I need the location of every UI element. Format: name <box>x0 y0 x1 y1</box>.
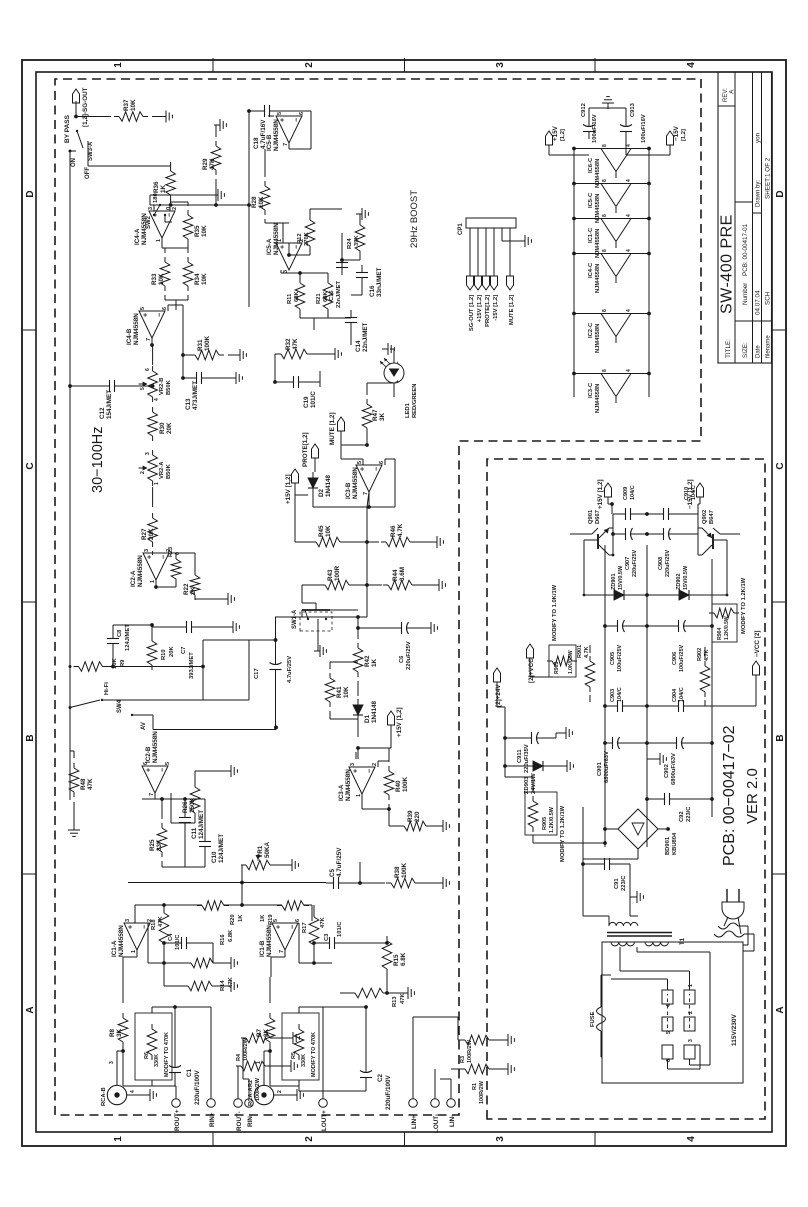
svg-text:4.7K: 4.7K <box>584 646 590 658</box>
svg-text:3: 3 <box>495 62 506 68</box>
svg-text:C13: C13 <box>185 398 192 410</box>
svg-text:8: 8 <box>602 309 608 312</box>
svg-text:47K: 47K <box>87 778 94 790</box>
svg-text:10K: 10K <box>343 686 350 698</box>
svg-text:47K: 47K <box>158 916 164 927</box>
svg-text:C8: C8 <box>117 629 123 637</box>
svg-text:+: + <box>353 769 360 773</box>
svg-text:MODIFY TO 1.2K/1W: MODIFY TO 1.2K/1W <box>560 805 566 862</box>
svg-text:MUTE [1,2]: MUTE [1,2] <box>509 295 515 325</box>
svg-text:4.7uF/25V: 4.7uF/25V <box>336 847 343 877</box>
svg-text:−: − <box>374 467 381 471</box>
svg-text:101/C: 101/C <box>175 934 181 950</box>
svg-text:Drawn by:: Drawn by: <box>755 180 761 207</box>
svg-text:C91: C91 <box>614 878 620 889</box>
svg-text:7: 7 <box>149 793 155 796</box>
svg-text:D: D <box>775 190 786 197</box>
svg-text:PCB: 00−00417−02: PCB: 00−00417−02 <box>721 725 738 866</box>
svg-text:B: B <box>775 734 786 741</box>
svg-text:7: 7 <box>146 338 152 341</box>
svg-text:3: 3 <box>350 763 356 766</box>
svg-text:IC5-A: IC5-A <box>266 238 273 255</box>
svg-text:6.8K: 6.8K <box>400 952 407 966</box>
svg-text:6800uF/63V: 6800uF/63V <box>671 753 677 785</box>
svg-text:20K: 20K <box>166 422 173 434</box>
svg-text:R905: R905 <box>542 817 548 830</box>
svg-text:R13: R13 <box>392 996 398 1007</box>
svg-text:IC3-A: IC3-A <box>338 784 345 801</box>
svg-text:C18: C18 <box>253 137 260 149</box>
svg-text:3: 3 <box>144 549 150 552</box>
svg-text:D: D <box>25 190 36 197</box>
svg-text:LIN-: LIN- <box>449 1115 456 1127</box>
svg-text:R30: R30 <box>159 422 166 434</box>
svg-text:IC4-C: IC4-C <box>588 262 594 278</box>
svg-text:NJM4558N: NJM4558N <box>595 264 601 293</box>
svg-text:68K: 68K <box>294 291 300 302</box>
svg-text:1: 1 <box>256 1061 262 1064</box>
svg-text:TITLE:: TITLE: <box>725 339 732 358</box>
svg-text:Q901: Q901 <box>588 509 594 524</box>
svg-text:NJM4558N: NJM4558N <box>118 925 125 957</box>
svg-text:2: 2 <box>172 207 178 210</box>
svg-text:IC3-C: IC3-C <box>588 382 594 398</box>
svg-text:47K: 47K <box>209 158 216 170</box>
svg-text:6: 6 <box>379 461 385 464</box>
svg-text:R901: R901 <box>577 645 583 658</box>
svg-text:C16: C16 <box>369 285 376 297</box>
svg-text:MUTE [1,2]: MUTE [1,2] <box>329 412 336 445</box>
svg-text:ON: ON <box>71 158 77 167</box>
svg-text:R903: R903 <box>554 661 560 674</box>
svg-text:8: 8 <box>602 179 608 182</box>
svg-text:R44: R44 <box>392 569 399 581</box>
svg-text:R37: R37 <box>123 99 130 111</box>
svg-text:IC5-C: IC5-C <box>588 192 594 208</box>
svg-text:−: − <box>160 768 167 772</box>
svg-text:R6: R6 <box>144 1052 150 1059</box>
svg-text:−15V [1,2]: −15V [1,2] <box>687 479 694 509</box>
svg-text:R7: R7 <box>256 1028 263 1037</box>
svg-text:+15V [1,2]: +15V [1,2] <box>285 474 292 504</box>
svg-text:C901: C901 <box>597 761 603 776</box>
svg-text:SW1-A: SW1-A <box>292 609 298 629</box>
svg-text:C14: C14 <box>355 340 362 352</box>
svg-text:4: 4 <box>154 398 160 401</box>
svg-text:SG-OUT [1,2]: SG-OUT [1,2] <box>469 295 475 331</box>
svg-text:A: A <box>729 89 736 94</box>
svg-text:−: − <box>161 555 168 559</box>
svg-text:1N4148: 1N4148 <box>325 474 332 497</box>
svg-text:NJM4558N: NJM4558N <box>595 384 601 413</box>
svg-text:1: 1 <box>154 482 160 485</box>
svg-text:R18: R18 <box>151 919 157 930</box>
svg-text:220uF/25V: 220uF/25V <box>632 549 638 577</box>
svg-text:6.8K: 6.8K <box>228 929 234 942</box>
svg-text:C4: C4 <box>168 933 174 941</box>
svg-text:IC2-B: IC2-B <box>145 746 152 763</box>
svg-text:100K: 100K <box>402 776 409 792</box>
svg-text:3K: 3K <box>116 1028 123 1037</box>
svg-text:R902: R902 <box>697 648 703 661</box>
svg-text:2: 2 <box>688 1011 694 1014</box>
svg-text:3: 3 <box>688 1039 694 1042</box>
svg-text:R36: R36 <box>153 181 160 193</box>
svg-text:100uF/25V: 100uF/25V <box>679 644 685 672</box>
svg-text:IC4-A: IC4-A <box>134 228 141 245</box>
svg-text:5: 5 <box>140 387 146 390</box>
svg-text:8: 8 <box>602 144 608 147</box>
svg-text:B: B <box>25 734 36 741</box>
svg-text:R9: R9 <box>120 659 126 667</box>
svg-text:C3: C3 <box>324 933 330 941</box>
svg-text:223/C: 223/C <box>686 806 692 822</box>
svg-text:NJM4558N: NJM4558N <box>352 467 359 499</box>
svg-text:PROTE[1,2]: PROTE[1,2] <box>485 295 491 327</box>
svg-text:Date: Date <box>755 345 761 358</box>
svg-text:104/C: 104/C <box>630 485 636 500</box>
svg-text:IC4-B: IC4-B <box>126 328 133 345</box>
svg-text:3: 3 <box>125 919 131 922</box>
svg-text:R11: R11 <box>287 293 293 304</box>
svg-text:ZD901: ZD901 <box>611 573 617 590</box>
svg-text:R25: R25 <box>149 839 156 851</box>
svg-text:NJM4558N: NJM4558N <box>137 555 144 587</box>
svg-text:−: − <box>167 213 174 217</box>
svg-text:2: 2 <box>372 763 378 766</box>
svg-text:8: 8 <box>602 369 608 372</box>
svg-text:220uF/25V: 220uF/25V <box>406 641 412 670</box>
svg-text:4: 4 <box>626 249 632 252</box>
svg-text:124J/MET: 124J/MET <box>198 810 205 839</box>
svg-text:270K: 270K <box>304 231 310 246</box>
svg-text:R28: R28 <box>251 196 258 208</box>
svg-text:6: 6 <box>162 307 168 310</box>
svg-text:C905: C905 <box>610 652 616 665</box>
svg-text:C909: C909 <box>623 487 629 500</box>
svg-text:ZD902: ZD902 <box>676 573 682 590</box>
svg-text:10K: 10K <box>325 525 332 537</box>
svg-text:5: 5 <box>277 112 283 115</box>
svg-text:LED1: LED1 <box>405 402 411 418</box>
svg-text:RCA-B: RCA-B <box>101 1087 107 1106</box>
svg-text:1: 1 <box>356 794 362 797</box>
svg-text:C911: C911 <box>517 749 523 763</box>
svg-text:R24: R24 <box>347 238 353 249</box>
svg-text:C11: C11 <box>191 827 198 839</box>
svg-text:OFF: OFF <box>85 167 91 179</box>
svg-text:4.7uF/25V: 4.7uF/25V <box>287 656 293 683</box>
svg-text:5: 5 <box>666 1031 672 1034</box>
svg-text:24V/1W: 24V/1W <box>531 773 537 794</box>
svg-text:BY PASS: BY PASS <box>64 114 71 143</box>
svg-text:104/C: 104/C <box>617 687 623 702</box>
svg-text:50KA: 50KA <box>264 841 271 858</box>
svg-text:5: 5 <box>273 919 279 922</box>
svg-text:−15V: −15V <box>673 125 680 141</box>
svg-text:47K: 47K <box>400 993 406 1004</box>
svg-text:−: − <box>294 245 301 249</box>
svg-text:15V/0.5W: 15V/0.5W <box>683 565 689 590</box>
svg-text:3K: 3K <box>379 412 386 421</box>
svg-text:1: 1 <box>113 1136 124 1142</box>
svg-text:R22: R22 <box>183 583 190 595</box>
svg-text:R40: R40 <box>395 780 402 792</box>
svg-text:154J/MET: 154J/MET <box>106 390 113 419</box>
svg-text:115V/230V: 115V/230V <box>731 1014 738 1046</box>
svg-text:D667: D667 <box>595 510 601 524</box>
svg-text:R42: R42 <box>364 655 371 667</box>
svg-text:NJM4558N: NJM4558N <box>273 223 280 255</box>
svg-text:220uF/100V: 220uF/100V <box>194 1070 201 1105</box>
svg-text:R3: R3 <box>460 1056 466 1063</box>
svg-text:5: 5 <box>165 762 171 765</box>
svg-text:C: C <box>775 462 786 469</box>
svg-text:R20: R20 <box>230 914 236 925</box>
svg-text:RIN+: RIN+ <box>209 1112 216 1127</box>
svg-text:VR2-A: VR2-A <box>159 461 165 479</box>
svg-text:R5: R5 <box>291 1052 297 1059</box>
svg-text:LIN+: LIN+ <box>411 1115 418 1129</box>
svg-text:10K: 10K <box>158 273 165 285</box>
svg-text:R16: R16 <box>220 934 226 945</box>
svg-text:NJM4558N: NJM4558N <box>595 324 601 353</box>
svg-text:220uF/25V: 220uF/25V <box>665 549 671 577</box>
svg-text:[2]+VCC: [2]+VCC <box>528 658 535 683</box>
svg-text:C908: C908 <box>658 557 664 570</box>
svg-text:LOUT-: LOUT- <box>433 1114 440 1133</box>
svg-text:MODIFY TO 1.2K/1W: MODIFY TO 1.2K/1W <box>741 577 747 634</box>
svg-text:+15V [1,2]: +15V [1,2] <box>396 707 403 737</box>
svg-text:R35: R35 <box>194 225 201 237</box>
svg-text:NJM4558N: NJM4558N <box>133 313 140 345</box>
svg-text:+15V [1,2]: +15V [1,2] <box>477 295 483 322</box>
svg-text:R4: R4 <box>236 1053 242 1061</box>
svg-text:1: 1 <box>156 239 162 242</box>
svg-text:[1,2]: [1,2] <box>560 129 566 141</box>
svg-text:C912: C912 <box>581 103 587 117</box>
svg-text:B647: B647 <box>709 510 715 524</box>
svg-text:R32: R32 <box>285 338 292 350</box>
svg-text:100R/2W: 100R/2W <box>243 1037 249 1061</box>
svg-text:100uF/16V: 100uF/16V <box>592 114 598 143</box>
svg-text:R21: R21 <box>316 293 322 304</box>
svg-text:RIN-: RIN- <box>247 1114 254 1127</box>
svg-text:6: 6 <box>299 112 305 115</box>
svg-text:4: 4 <box>686 1136 697 1142</box>
svg-text:PCB: 00-00417-01: PCB: 00-00417-01 <box>742 223 749 276</box>
svg-text:15V/0.5W: 15V/0.5W <box>618 565 624 590</box>
svg-text:1: 1 <box>113 62 124 68</box>
svg-text:MODIFY TO 1.0K/1W: MODIFY TO 1.0K/1W <box>552 584 558 641</box>
svg-text:D2: D2 <box>318 488 325 497</box>
svg-text:C6: C6 <box>399 655 405 663</box>
svg-text:2: 2 <box>304 1136 315 1142</box>
svg-text:−: − <box>142 925 149 929</box>
svg-text:+: + <box>395 380 401 383</box>
svg-text:3K: 3K <box>263 1028 270 1037</box>
svg-text:1K: 1K <box>160 184 167 193</box>
svg-text:C7: C7 <box>181 647 187 654</box>
svg-text:RCA-A: RCA-A <box>248 1087 254 1106</box>
svg-text:ROUT+: ROUT+ <box>174 1109 181 1131</box>
svg-text:ZD903: ZD903 <box>524 776 530 794</box>
svg-text:101/C: 101/C <box>337 921 343 937</box>
svg-text:C19: C19 <box>303 396 310 408</box>
svg-text:1.2K/0.5W: 1.2K/0.5W <box>724 616 730 640</box>
svg-text:33nJ/MET: 33nJ/MET <box>376 267 383 297</box>
svg-text:SW-400 PRE: SW-400 PRE <box>719 214 736 314</box>
svg-text:20K: 20K <box>148 528 155 540</box>
svg-text:4: 4 <box>626 144 632 147</box>
svg-text:SHEET:1 OF 2: SHEET:1 OF 2 <box>764 157 771 199</box>
svg-text:R8: R8 <box>109 1028 116 1037</box>
svg-text:330K: 330K <box>154 1054 160 1067</box>
svg-text:VER 2.0: VER 2.0 <box>744 768 761 824</box>
svg-text:1: 1 <box>688 984 694 987</box>
svg-text:R43: R43 <box>327 569 334 581</box>
svg-text:KBU804: KBU804 <box>672 832 678 855</box>
svg-text:R45: R45 <box>318 525 325 537</box>
svg-text:BD901: BD901 <box>665 836 671 855</box>
svg-text:VR2-B: VR2-B <box>159 378 165 395</box>
svg-text:10K: 10K <box>258 196 265 208</box>
svg-text:3: 3 <box>148 207 154 210</box>
svg-text:100uF/25V: 100uF/25V <box>617 644 623 672</box>
svg-text:+: + <box>128 925 135 929</box>
svg-text:−: − <box>294 118 301 122</box>
svg-text:SCH: SCH <box>764 291 771 305</box>
svg-text:C906: C906 <box>672 652 678 665</box>
svg-text:330K: 330K <box>301 1054 307 1067</box>
svg-text:T1: T1 <box>680 937 686 945</box>
svg-text:2: 2 <box>304 62 315 68</box>
svg-text:22nJ/MET: 22nJ/MET <box>362 322 369 352</box>
svg-text:C92: C92 <box>679 811 685 822</box>
svg-text:3.6M: 3.6M <box>399 567 406 581</box>
svg-text:SW3-A: SW3-A <box>88 141 94 161</box>
svg-text:Number: Number <box>742 283 749 305</box>
svg-text:4: 4 <box>626 214 632 217</box>
svg-text:NJM4558N: NJM4558N <box>141 213 148 245</box>
svg-text:5: 5 <box>140 307 146 310</box>
svg-text:1K: 1K <box>260 914 266 922</box>
svg-text:R33: R33 <box>151 273 158 285</box>
svg-text:R26: R26 <box>182 801 189 813</box>
svg-text:yon: yon <box>754 132 761 143</box>
svg-text:ROUT-: ROUT- <box>236 1111 243 1131</box>
svg-text:100R: 100R <box>334 565 341 581</box>
svg-text:7: 7 <box>363 492 369 495</box>
svg-text:1K: 1K <box>238 914 244 922</box>
svg-text:R1: R1 <box>472 1083 478 1090</box>
svg-text:[1,2]: [1,2] <box>681 129 687 141</box>
svg-text:100K: 100K <box>204 335 211 351</box>
svg-text:1K: 1K <box>371 658 378 667</box>
svg-text:A: A <box>25 1006 36 1013</box>
svg-text:4: 4 <box>686 62 697 68</box>
svg-text:1: 1 <box>150 580 156 583</box>
svg-text:R47: R47 <box>372 409 379 421</box>
svg-text:−: − <box>395 361 401 364</box>
svg-text:[2]+24V: [2]+24V <box>495 684 502 707</box>
svg-text:C904: C904 <box>672 688 678 702</box>
svg-text:A: A <box>775 1006 786 1013</box>
svg-text:124J/MET: 124J/MET <box>218 834 225 863</box>
svg-text:R17: R17 <box>302 922 308 933</box>
svg-text:30−100Hz: 30−100Hz <box>90 426 106 493</box>
svg-text:C15: C15 <box>329 290 335 301</box>
svg-text:4: 4 <box>130 1090 136 1093</box>
svg-text:B50K: B50K <box>166 379 172 395</box>
svg-text:R38: R38 <box>394 866 401 878</box>
svg-text:7: 7 <box>279 950 285 953</box>
svg-text:R29: R29 <box>202 158 209 170</box>
svg-text:-15V [1,2]: -15V [1,2] <box>493 295 499 321</box>
svg-text:NJM4558N: NJM4558N <box>152 731 159 763</box>
svg-text:R39: R39 <box>407 810 414 822</box>
svg-text:R12: R12 <box>297 233 303 244</box>
svg-text:6: 6 <box>145 368 151 371</box>
svg-text:−: − <box>290 925 297 929</box>
svg-text:100R/2W: 100R/2W <box>479 1080 485 1104</box>
svg-text:6: 6 <box>143 762 149 765</box>
svg-text:3: 3 <box>495 1136 506 1142</box>
svg-text:104/C: 104/C <box>679 687 685 702</box>
svg-text:+15V [1,2]: +15V [1,2] <box>597 479 604 509</box>
svg-text:4: 4 <box>666 1004 672 1007</box>
svg-text:223/C: 223/C <box>621 875 627 891</box>
svg-text:RED/GREEN: RED/GREEN <box>412 384 418 418</box>
svg-text:IC1-B: IC1-B <box>259 940 266 957</box>
svg-text:FUSE: FUSE <box>590 1011 596 1027</box>
svg-text:2: 2 <box>277 1090 283 1093</box>
svg-text:C2: C2 <box>377 1073 384 1082</box>
svg-text:IC1-A: IC1-A <box>111 940 118 957</box>
svg-text:[1,2]-SG-OUT: [1,2]-SG-OUT <box>82 87 89 127</box>
svg-text:filename: filename <box>765 335 771 358</box>
svg-text:5: 5 <box>357 461 363 464</box>
svg-text:1N4148: 1N4148 <box>371 700 378 723</box>
svg-text:MODIFY TO 470K: MODIFY TO 470K <box>164 1032 170 1077</box>
svg-text:2: 2 <box>140 471 146 474</box>
svg-text:4: 4 <box>626 369 632 372</box>
svg-text:C10: C10 <box>211 851 218 863</box>
svg-text:39K: 39K <box>354 235 360 246</box>
svg-text:B50K: B50K <box>166 463 172 479</box>
svg-text:PROTE[1,2]: PROTE[1,2] <box>302 432 309 467</box>
svg-text:R904: R904 <box>717 627 723 640</box>
svg-text:NJM4558N: NJM4558N <box>345 769 352 801</box>
svg-text:220uF/35V: 220uF/35V <box>524 744 530 773</box>
svg-text:MODIFY TO 470K: MODIFY TO 470K <box>311 1032 317 1077</box>
svg-text:473J/MET: 473J/MET <box>192 381 199 410</box>
svg-text:100uF/16V: 100uF/16V <box>641 114 647 143</box>
svg-text:C: C <box>25 462 36 469</box>
svg-text:1: 1 <box>277 239 283 242</box>
svg-text:NJM4558N: NJM4558N <box>273 119 280 151</box>
svg-text:3: 3 <box>109 1061 115 1064</box>
svg-text:22nJ/MET: 22nJ/MET <box>336 280 342 308</box>
svg-text:4.7K: 4.7K <box>397 523 404 537</box>
svg-text:IC1-C: IC1-C <box>588 227 594 243</box>
svg-text:Q902: Q902 <box>702 510 708 524</box>
svg-text:+: + <box>280 118 287 122</box>
svg-text:1.2K/0.5W: 1.2K/0.5W <box>549 806 555 833</box>
svg-text:+: + <box>360 467 367 471</box>
svg-text:−: − <box>367 769 374 773</box>
svg-text:C17: C17 <box>254 668 260 679</box>
